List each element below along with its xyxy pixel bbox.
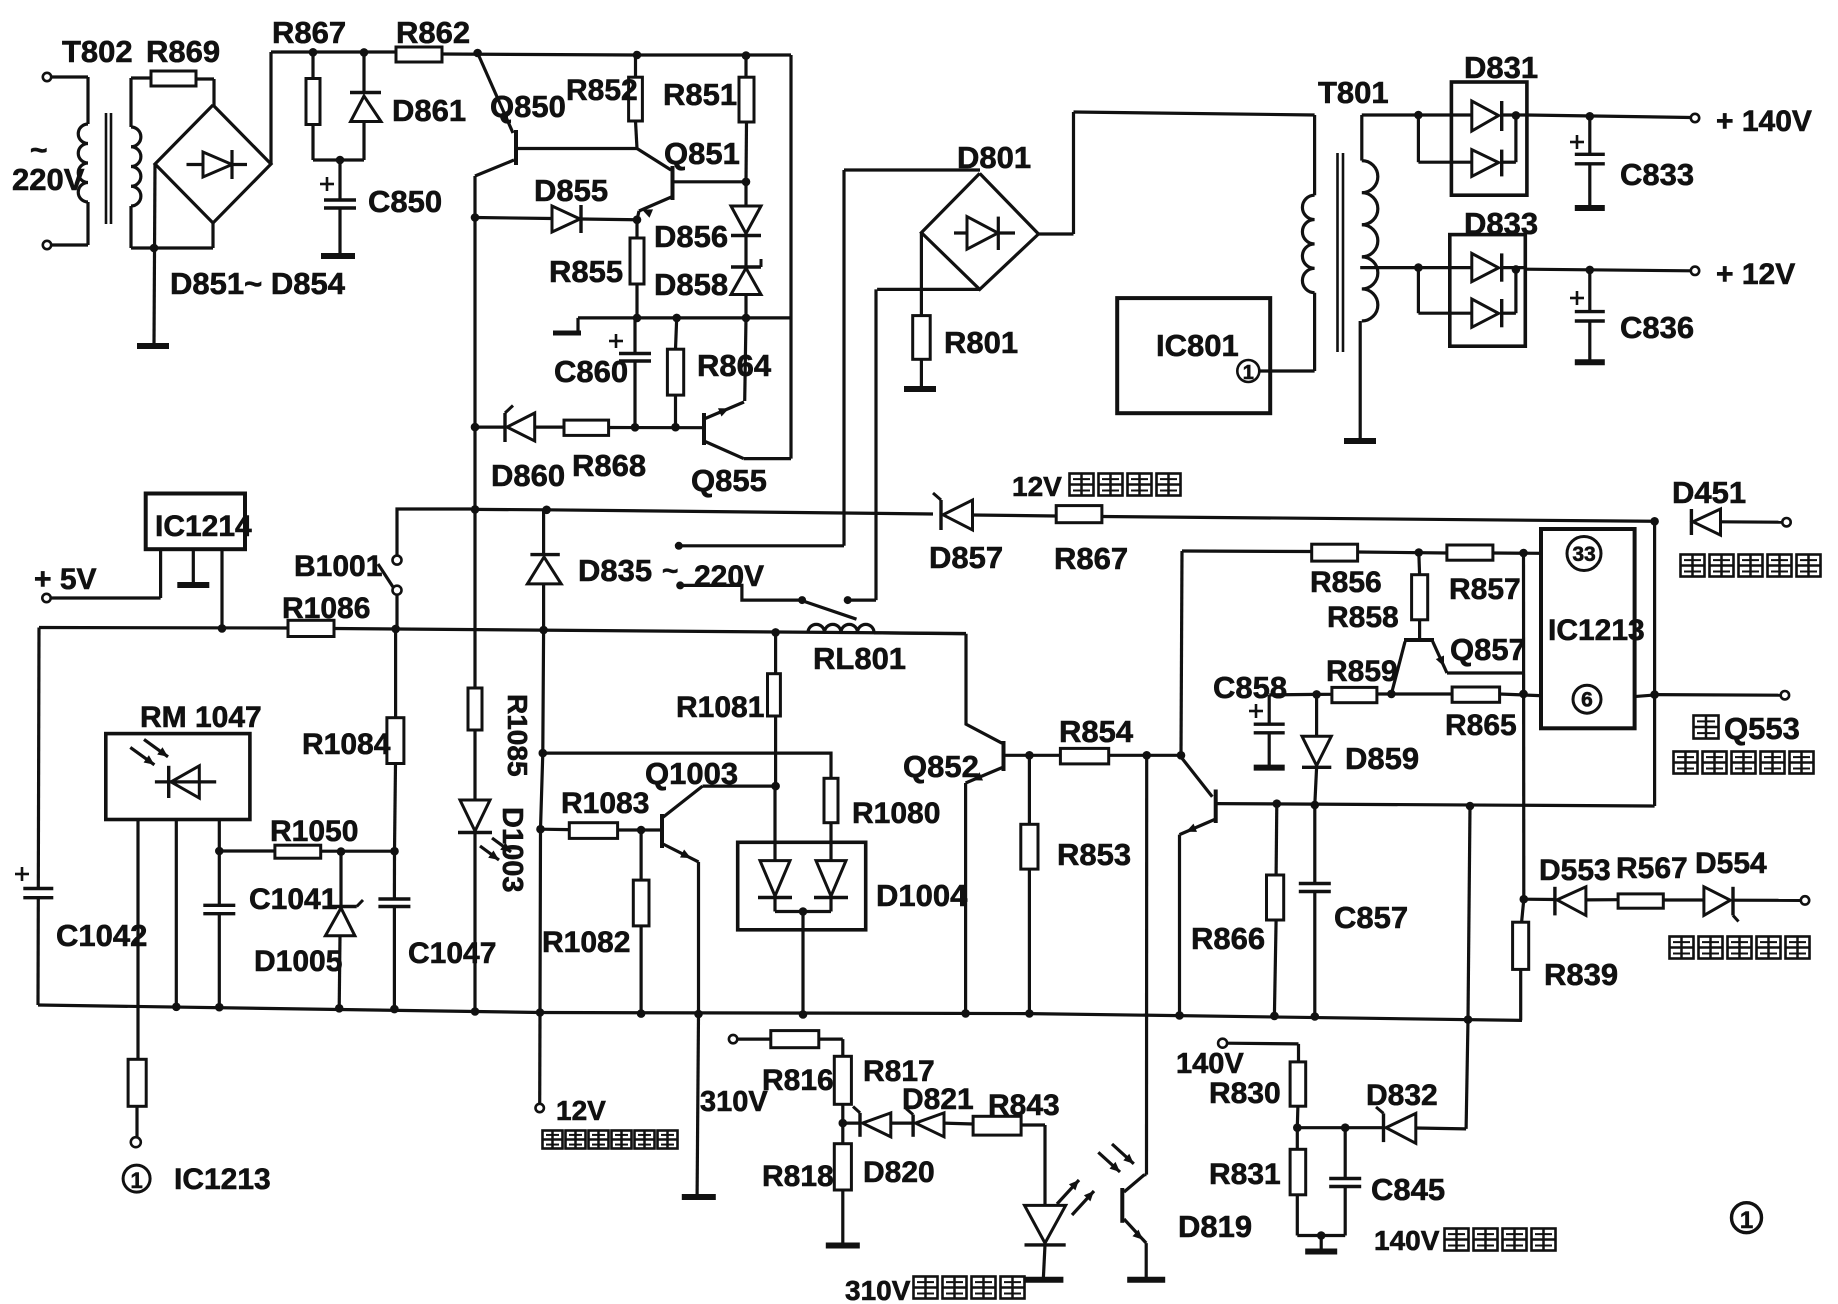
svg-text:D451: D451: [1672, 475, 1746, 510]
svg-text:D831: D831: [1464, 50, 1538, 85]
svg-text:220V: 220V: [12, 162, 85, 197]
svg-text:R869: R869: [146, 34, 220, 69]
svg-text:D835: D835: [578, 553, 652, 588]
svg-text:RL801: RL801: [813, 641, 906, 676]
svg-text:Q855: Q855: [691, 463, 767, 498]
svg-text:140V: 140V: [1374, 1225, 1440, 1256]
svg-text:D821: D821: [902, 1083, 974, 1116]
svg-text:R801: R801: [944, 325, 1018, 360]
svg-text:IC1213: IC1213: [1548, 614, 1645, 647]
svg-text:D859: D859: [1345, 741, 1419, 776]
svg-text:R853: R853: [1057, 837, 1131, 872]
svg-text:~: ~: [662, 555, 678, 586]
svg-text:D1005: D1005: [254, 945, 342, 978]
svg-text:IC801: IC801: [1156, 328, 1239, 363]
svg-text:R567: R567: [1616, 852, 1688, 885]
svg-text:IC1214: IC1214: [155, 510, 252, 543]
svg-text:33: 33: [1572, 543, 1595, 566]
svg-text:R854: R854: [1059, 714, 1134, 749]
svg-text:C860: C860: [554, 354, 628, 389]
svg-text:1: 1: [1740, 1207, 1753, 1234]
svg-text:R859: R859: [1326, 655, 1398, 688]
svg-text:R867: R867: [272, 15, 346, 50]
svg-text:C833: C833: [1620, 157, 1694, 192]
svg-text:D554: D554: [1695, 847, 1767, 880]
svg-text:D857: D857: [929, 540, 1003, 575]
svg-text:R862: R862: [396, 15, 470, 50]
svg-text:IC1213: IC1213: [174, 1163, 271, 1196]
svg-text:R855: R855: [549, 254, 623, 289]
svg-text:D833: D833: [1464, 206, 1538, 241]
svg-text:D553: D553: [1539, 854, 1611, 887]
svg-text:C1047: C1047: [408, 937, 496, 970]
svg-text:R851: R851: [663, 77, 737, 112]
svg-text:Q852: Q852: [903, 749, 979, 784]
svg-text:R816: R816: [762, 1064, 834, 1097]
svg-text:R856: R856: [1310, 566, 1382, 599]
svg-text:310V: 310V: [845, 1275, 911, 1304]
svg-text:RM 1047: RM 1047: [140, 701, 262, 734]
svg-text:R843: R843: [988, 1089, 1060, 1122]
svg-text:R1083: R1083: [561, 787, 649, 820]
svg-text:D820: D820: [863, 1156, 935, 1189]
svg-text:R852: R852: [566, 74, 638, 107]
svg-text:Q851: Q851: [664, 136, 740, 171]
svg-text:D860: D860: [491, 458, 565, 493]
svg-text:Q1003: Q1003: [645, 756, 738, 791]
svg-text:T802: T802: [62, 34, 133, 69]
svg-text:+ 5V: + 5V: [34, 563, 97, 596]
svg-text:12V: 12V: [556, 1095, 606, 1126]
svg-text:D858: D858: [654, 267, 728, 302]
svg-text:B1001: B1001: [294, 550, 382, 583]
svg-text:C857: C857: [1334, 900, 1408, 935]
svg-text:Q850: Q850: [490, 89, 566, 124]
svg-text:C850: C850: [368, 184, 442, 219]
svg-text:R1081: R1081: [676, 691, 764, 724]
svg-text:R1085: R1085: [502, 694, 533, 777]
svg-text:D855: D855: [534, 173, 608, 208]
svg-text:R839: R839: [1544, 957, 1618, 992]
svg-text:R865: R865: [1445, 709, 1517, 742]
svg-text:310V: 310V: [700, 1086, 768, 1118]
svg-text:1: 1: [1243, 362, 1254, 384]
svg-text:Q553: Q553: [1724, 711, 1800, 746]
svg-text:C858: C858: [1213, 670, 1287, 705]
svg-text:R866: R866: [1191, 921, 1265, 956]
svg-text:D856: D856: [654, 219, 728, 254]
svg-text:R818: R818: [762, 1160, 834, 1193]
svg-text:R858: R858: [1327, 601, 1399, 634]
svg-text:1: 1: [130, 1168, 142, 1193]
svg-text:D819: D819: [1178, 1209, 1252, 1244]
svg-text:D1003: D1003: [496, 807, 528, 892]
svg-text:R1082: R1082: [542, 926, 630, 959]
svg-text:R830: R830: [1209, 1077, 1281, 1110]
svg-text:220V: 220V: [694, 560, 764, 593]
svg-text:R1086: R1086: [282, 592, 370, 625]
svg-text:D1004: D1004: [876, 878, 968, 913]
svg-text:R1084: R1084: [302, 728, 391, 761]
svg-text:140V: 140V: [1176, 1048, 1244, 1080]
svg-text:R867: R867: [1054, 541, 1128, 576]
svg-text:D861: D861: [392, 93, 466, 128]
svg-text:R864: R864: [697, 348, 772, 383]
svg-text:C845: C845: [1371, 1172, 1445, 1207]
svg-text:D832: D832: [1366, 1079, 1438, 1112]
svg-text:R1080: R1080: [852, 797, 940, 830]
svg-text:R1050: R1050: [270, 815, 358, 848]
svg-text:+ 12V: + 12V: [1716, 258, 1795, 291]
svg-text:R857: R857: [1449, 573, 1521, 606]
svg-text:C1041: C1041: [249, 883, 337, 916]
svg-text:12V: 12V: [1012, 471, 1062, 502]
svg-text:T801: T801: [1318, 75, 1389, 110]
svg-text:C836: C836: [1620, 310, 1694, 345]
svg-text:D851~ D854: D851~ D854: [170, 266, 346, 301]
svg-text:Q857: Q857: [1450, 632, 1526, 667]
svg-text:C1042: C1042: [56, 918, 147, 953]
svg-text:6: 6: [1581, 689, 1593, 712]
svg-text:R831: R831: [1209, 1158, 1281, 1191]
svg-text:D801: D801: [957, 140, 1031, 175]
svg-text:+ 140V: + 140V: [1716, 105, 1812, 138]
svg-text:R868: R868: [572, 448, 646, 483]
